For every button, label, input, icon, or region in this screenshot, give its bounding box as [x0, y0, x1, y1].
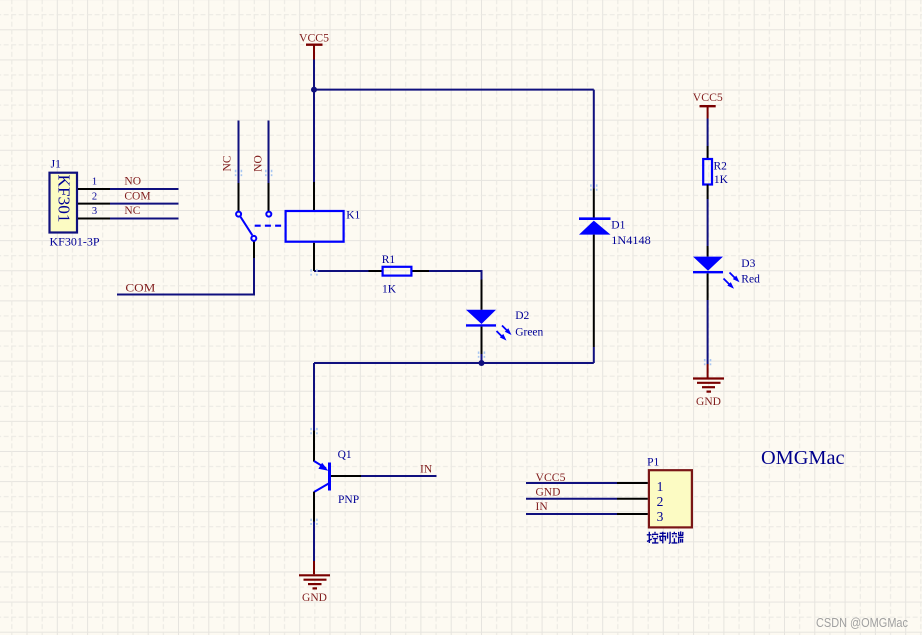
pin 2 of P1	[617, 498, 648, 500]
wire R2 to D3	[707, 199, 709, 246]
svg-text:D2: D2	[515, 310, 529, 322]
svg-text:1N4148: 1N4148	[611, 235, 651, 247]
svg-text:1K: 1K	[382, 284, 397, 296]
junction at VCC node	[311, 87, 317, 93]
compile marker at NO wire end	[266, 170, 272, 176]
compile marker at Q1 collector	[311, 519, 317, 525]
contact circle COM	[251, 236, 256, 241]
transistor Q1 PNP	[314, 431, 361, 522]
Q1 emitter diagonal	[314, 461, 326, 468]
D3 cathode bar	[693, 271, 723, 273]
svg-text:D1: D1	[611, 220, 625, 232]
compile marker at NC wire end	[236, 170, 242, 176]
power port VCC5 (top)	[306, 45, 323, 60]
resistor R2	[703, 146, 712, 199]
D3 triangle	[693, 257, 723, 271]
D3 pin bottom	[707, 273, 709, 300]
connector J1 box	[50, 173, 78, 233]
wire NO contact vertical	[268, 121, 270, 184]
svg-text:R2: R2	[714, 161, 728, 173]
R2 pin top	[707, 146, 709, 159]
compile marker at D2 node	[236, 170, 711, 525]
wire VCC5 stub at P1	[526, 482, 617, 484]
D1 pin top	[593, 189, 595, 218]
wire COM stub	[110, 203, 179, 205]
relay K1	[236, 182, 344, 271]
svg-text:J1: J1	[51, 158, 61, 170]
svg-text:NO: NO	[124, 176, 141, 188]
compile marker at GND right	[705, 359, 711, 365]
ground GND (right)	[693, 364, 724, 392]
svg-text:3: 3	[92, 206, 97, 217]
Q1 emitter pin	[313, 431, 315, 462]
D2 light arrow 2	[497, 331, 503, 337]
wire NO stub	[110, 188, 179, 190]
svg-text:NO: NO	[253, 155, 265, 172]
D2 triangle	[466, 310, 496, 324]
svg-text:D3: D3	[741, 258, 755, 270]
LED D3 Red	[693, 246, 740, 300]
svg-text:KF301-3P: KF301-3P	[50, 236, 100, 248]
svg-text:COM: COM	[125, 283, 155, 295]
ground GND (bottom, Q1)	[299, 561, 330, 588]
pin 3 of P1	[617, 513, 648, 515]
D3 pin top	[707, 246, 709, 257]
svg-text:P1: P1	[647, 457, 659, 469]
wire Q1 collector to GND	[313, 522, 315, 562]
relay pin bottom	[313, 243, 315, 271]
svg-text:Q1: Q1	[338, 449, 352, 461]
D2 cathode bar	[466, 324, 496, 326]
svg-text:1: 1	[657, 479, 664, 494]
compile marker at relay pin corner	[311, 269, 317, 275]
R1 pin right	[413, 270, 430, 272]
svg-text:Green: Green	[515, 327, 543, 339]
svg-text:KF301: KF301	[55, 175, 74, 223]
wire Q1 base IN	[361, 475, 437, 477]
D1 cathode bar	[579, 217, 611, 220]
comment 控制端 (control terminal)	[647, 531, 684, 543]
contact circle NO	[266, 212, 271, 217]
wire D2 to bottom node	[481, 354, 483, 363]
diode D1 1N4148	[579, 189, 611, 348]
pin 2 of J1	[78, 203, 110, 205]
svg-text:VCC5: VCC5	[693, 92, 723, 104]
svg-text:NC: NC	[222, 155, 234, 171]
wire VCC5 vertical to relay K1	[313, 60, 315, 183]
svg-text:R1: R1	[382, 254, 396, 266]
Q1 base bar	[328, 463, 331, 491]
svg-text:NC: NC	[124, 205, 140, 217]
wire NC stub	[110, 218, 179, 220]
wire relay K1 to R1	[314, 270, 369, 272]
svg-text:GND: GND	[302, 592, 327, 604]
switch arm	[241, 217, 253, 235]
actuator dashed link	[255, 225, 285, 227]
svg-text:COM: COM	[124, 191, 150, 203]
Q1 base pin	[331, 475, 361, 477]
compile marker at D1 top	[591, 184, 597, 190]
power port VCC5 (right)	[700, 106, 716, 118]
wire Q1 emitter vertical	[313, 363, 315, 431]
svg-text:K1: K1	[346, 210, 360, 222]
pin 1 of J1	[78, 188, 110, 190]
resistor R1	[369, 267, 430, 276]
wire COM	[117, 258, 254, 295]
svg-text:VCC5: VCC5	[299, 32, 329, 44]
svg-text:2: 2	[657, 494, 664, 509]
svg-text:IN: IN	[536, 501, 549, 513]
LED D2 Green	[466, 280, 512, 355]
pin 1 of P1	[617, 482, 648, 484]
svg-text:VCC5: VCC5	[536, 472, 566, 484]
svg-text:1K: 1K	[714, 174, 729, 186]
svg-text:IN: IN	[420, 464, 433, 476]
D1 triangle	[579, 221, 611, 235]
R2 pin bottom	[707, 185, 709, 200]
svg-text:GND: GND	[536, 487, 561, 499]
svg-text:2: 2	[92, 192, 97, 203]
relay contact pin NO	[268, 183, 270, 211]
wire NC contact vertical	[238, 121, 240, 184]
D2 pin top	[481, 280, 483, 310]
relay pin top	[313, 182, 315, 210]
wire D1 bottom vertical	[593, 347, 595, 363]
svg-text:CSDN @OMGMac: CSDN @OMGMac	[816, 615, 908, 630]
wire VCC5 to R2	[707, 119, 709, 147]
wire top horizontal VCC to D1	[314, 89, 594, 91]
junction at D2 cathode node	[479, 360, 485, 366]
connector P1 box	[649, 470, 692, 527]
Q1 collector diagonal	[314, 483, 330, 492]
D2 pin bottom	[481, 327, 483, 354]
D2 light arrow 1	[502, 326, 508, 332]
wire D1 top vertical	[593, 90, 595, 189]
wire IN stub at P1	[526, 513, 617, 515]
pin 3 of J1	[78, 218, 110, 220]
D1 pin bottom	[593, 235, 595, 347]
wire D3 to GND	[707, 300, 709, 364]
Q1 collector pin	[313, 492, 315, 522]
svg-text:Red: Red	[741, 273, 760, 285]
Q1 emitter arrow	[318, 463, 328, 471]
D3 light arrow 2	[724, 279, 730, 285]
contact circle NC	[236, 212, 241, 217]
wire bottom horizontal	[314, 362, 594, 364]
svg-text:OMGMac: OMGMac	[761, 448, 845, 469]
wire R1 to D2	[429, 271, 482, 280]
compile marker at Q1 emitter	[311, 428, 317, 434]
R1 pin left	[369, 270, 382, 272]
relay contact pin COM	[253, 241, 255, 258]
D3 light arrow 1	[730, 273, 736, 279]
svg-text:1: 1	[92, 177, 97, 188]
relay contact pin NC	[238, 183, 240, 211]
svg-text:3: 3	[657, 509, 664, 524]
wire GND stub at P1	[526, 498, 617, 500]
svg-text:GND: GND	[696, 396, 721, 408]
svg-text:PNP: PNP	[338, 494, 359, 506]
